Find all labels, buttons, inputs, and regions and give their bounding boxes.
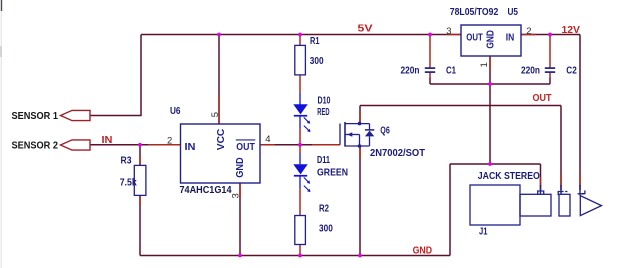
- wire R2 bottom lead: [299, 245, 301, 256]
- wire R1 top lead: [299, 35, 301, 46]
- wire C2 top lead: [549, 35, 551, 69]
- svg-text:2N7002/SOT: 2N7002/SOT: [370, 148, 426, 159]
- resistor R2: [295, 216, 306, 245]
- wire SENSOR1 horizontal: [90, 115, 142, 117]
- capacitor C1: [425, 68, 435, 72]
- wire GND rail riser: [449, 164, 451, 256]
- wire C2 bottom lead: [549, 72, 551, 84]
- jack tip triangle: [580, 196, 601, 216]
- wire SENSOR1 vertical: [140, 35, 142, 116]
- pin stub U6 pin2: [148, 144, 181, 146]
- wire D10 cathode to node: [299, 116, 301, 145]
- svg-text:R1: R1: [310, 36, 320, 47]
- svg-text:4: 4: [265, 134, 270, 145]
- svg-text:12V: 12V: [562, 25, 581, 36]
- wire 12V down to jack tip: [579, 35, 581, 196]
- connector SENSOR 1: [61, 110, 91, 120]
- wire net OUT down to jack ring: [560, 106, 562, 195]
- svg-text:SENSOR 1: SENSOR 1: [12, 111, 59, 122]
- junction GND / regulator pin1: [488, 82, 492, 86]
- wire U6 GND pin3 vertical: [239, 183, 241, 256]
- svg-text:78L05/TO92: 78L05/TO92: [450, 7, 499, 18]
- wire net 12V from pin2: [521, 34, 580, 36]
- svg-text:IN: IN: [506, 33, 515, 44]
- svg-text:300: 300: [310, 56, 324, 67]
- wire GND under caps: [430, 83, 550, 85]
- junction net IN / R3: [138, 143, 142, 147]
- svg-text:5V: 5V: [358, 24, 373, 35]
- jack ring box: [559, 194, 570, 216]
- svg-text:220n: 220n: [401, 65, 420, 76]
- wire D11 cathode to R2: [299, 176, 301, 216]
- svg-text:D10: D10: [318, 96, 331, 107]
- svg-text:2: 2: [167, 135, 172, 146]
- wire 5V rail: [141, 34, 461, 36]
- svg-text:R2: R2: [319, 204, 329, 215]
- svg-text:OUT: OUT: [466, 33, 483, 44]
- svg-text:GND: GND: [486, 30, 497, 49]
- connector SENSOR 2: [61, 140, 91, 150]
- svg-text:SENSOR 2: SENSOR 2: [12, 140, 59, 151]
- svg-text:7.5k: 7.5k: [120, 177, 137, 188]
- junction 5V rail / C1: [428, 33, 432, 37]
- resistor R1: [295, 45, 306, 75]
- svg-text:OUT: OUT: [236, 142, 255, 153]
- svg-text:R3: R3: [121, 156, 132, 167]
- svg-text:JACK STEREO: JACK STEREO: [478, 171, 540, 182]
- svg-text:1: 1: [479, 62, 490, 67]
- svg-text:5: 5: [210, 112, 221, 117]
- svg-text:2: 2: [526, 26, 531, 37]
- svg-text:Q6: Q6: [380, 125, 390, 136]
- jack sleeve pin arc: [538, 191, 544, 194]
- junction 5V rail / R1: [298, 33, 302, 37]
- wire GND bottom rail: [140, 255, 450, 257]
- capacitor C2: [545, 68, 555, 72]
- svg-text:OUT: OUT: [533, 93, 553, 104]
- junction GND rail / R2: [298, 254, 302, 258]
- junction GND rail / Q6 source: [358, 254, 362, 258]
- junction 5V rail / U6 VCC: [217, 33, 221, 37]
- svg-text:J1: J1: [479, 226, 488, 237]
- connector J1 jack body: [470, 185, 520, 225]
- svg-text:U6: U6: [170, 106, 181, 117]
- svg-text:300: 300: [319, 224, 333, 235]
- wire node to D11 anode: [299, 145, 301, 165]
- wire R3 bottom lead: [139, 196, 141, 256]
- wire Q6 source to GND rail: [359, 146, 361, 256]
- svg-text:3: 3: [231, 193, 242, 198]
- regulator U5 78L05 box: [461, 25, 521, 56]
- wire C1 top lead: [429, 35, 431, 69]
- svg-text:220n: 220n: [521, 65, 540, 76]
- svg-text:3: 3: [446, 26, 451, 37]
- wire R1 to D10: [299, 75, 301, 105]
- LED D10: [293, 104, 310, 132]
- frame artifact top-left: [0, 0, 3, 268]
- wire C1 bottom lead: [429, 72, 431, 84]
- svg-text:C1: C1: [446, 65, 456, 76]
- svg-text:RED: RED: [317, 107, 329, 118]
- junction GND rail / U6 pin3: [238, 254, 242, 258]
- resistor R3: [134, 165, 146, 195]
- wire SENSOR2 / net IN: [90, 144, 181, 146]
- svg-text:VCC: VCC: [216, 129, 227, 151]
- op-amp U6 inverter box: [181, 124, 261, 183]
- wire GND vertical to jack level: [489, 84, 491, 164]
- svg-text:GND: GND: [235, 157, 246, 178]
- wire net OUT horizontal: [360, 105, 561, 107]
- svg-text:GND: GND: [413, 245, 433, 256]
- svg-text:D11: D11: [317, 155, 330, 166]
- svg-text:C2: C2: [566, 65, 577, 76]
- wire GND horizontal to jack: [450, 163, 541, 165]
- svg-text:U5: U5: [508, 7, 519, 18]
- LED D11: [293, 164, 310, 192]
- svg-text:74AHC1G14: 74AHC1G14: [180, 185, 232, 196]
- wire U6 VCC vertical: [218, 35, 220, 125]
- junction U6 pin4 / D10 / D11: [298, 143, 302, 147]
- wire regulator pin3 stub: [447, 34, 461, 36]
- transistor Q6 2N7002: [340, 122, 374, 148]
- jack tip pin arc: [578, 190, 585, 193]
- jack ring pin arc: [558, 192, 563, 196]
- junction 12V / C2: [548, 33, 552, 37]
- wire regulator GND pin1: [489, 56, 491, 84]
- wire GND down to jack sleeve: [540, 164, 542, 194]
- wire U6 pin4 to gate: [260, 144, 340, 146]
- wire Q6 drain up: [359, 106, 361, 124]
- junction GND / jack branch: [488, 162, 492, 166]
- svg-text:IN: IN: [102, 135, 113, 146]
- svg-text:GREEN: GREEN: [317, 167, 348, 178]
- svg-text:IN: IN: [185, 142, 196, 153]
- jack sleeve box: [520, 194, 551, 216]
- wire R3 top lead: [139, 145, 141, 166]
